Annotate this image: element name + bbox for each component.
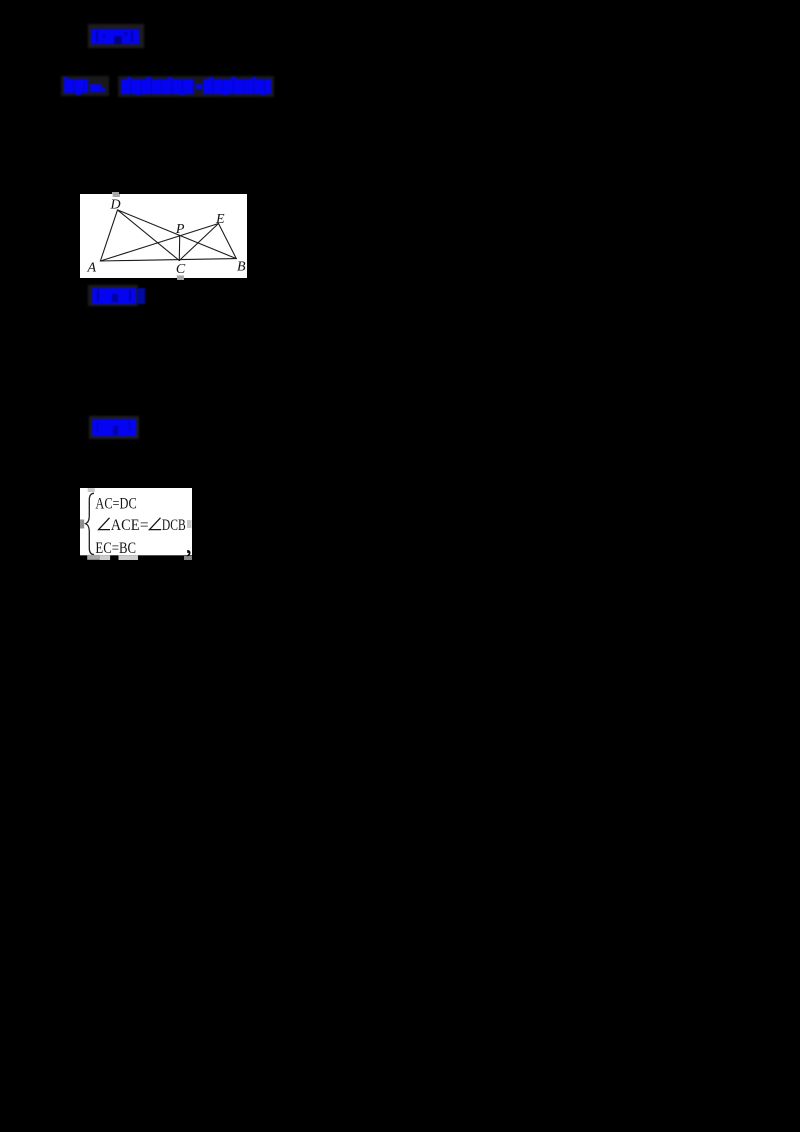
- svg-text:P: P: [175, 222, 185, 237]
- svg-text:E: E: [215, 212, 225, 227]
- svg-text:ACE: ACE: [111, 517, 140, 534]
- svg-text:D: D: [110, 198, 121, 213]
- svg-text:C: C: [176, 262, 186, 277]
- svg-text:B: B: [237, 260, 246, 275]
- svg-text:AC=DC: AC=DC: [95, 495, 136, 512]
- svg-text:EC=BC: EC=BC: [95, 540, 136, 557]
- svg-text:=: =: [140, 517, 149, 534]
- svg-text:A: A: [87, 261, 97, 276]
- svg-text:DCB: DCB: [162, 517, 186, 534]
